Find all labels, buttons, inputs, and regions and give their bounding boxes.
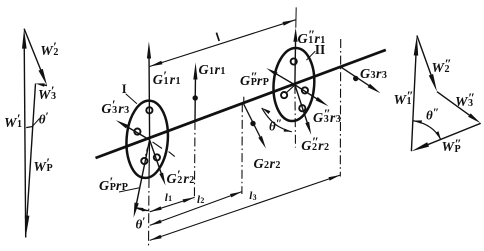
vector W''1 (right polygon) xyxy=(411,36,418,152)
label theta'' (plane II) xyxy=(269,118,282,133)
angle theta' tick (left polygon) xyxy=(26,126,33,127)
plane II centre line below (dash-dot) xyxy=(294,85,297,148)
label theta' (plane I) xyxy=(136,216,146,231)
dimension l xyxy=(150,20,296,67)
label theta' (left polygon) xyxy=(39,111,49,126)
vector G''2r2 (plane II, down) xyxy=(295,85,311,135)
dimension l1 xyxy=(150,197,195,211)
vector W'2 (left polygon) xyxy=(24,29,47,86)
vector W''P (right polygon) xyxy=(411,123,480,151)
dashed radius line plane I seg2 xyxy=(169,152,175,157)
hole I bottom-left xyxy=(141,158,147,164)
mass dot G3 xyxy=(353,76,358,81)
hole II left xyxy=(281,92,287,98)
label theta'' (right polygon) xyxy=(426,107,439,122)
dashed line to bottom-left hole plane I xyxy=(146,148,148,156)
extension line above plane II xyxy=(295,7,297,27)
theta'' arc (plane II) xyxy=(262,108,292,132)
vector G'3r3 (plane I, up-left) xyxy=(116,120,150,140)
leader from G'Pr_P label xyxy=(119,188,139,192)
label I (plane I) xyxy=(122,83,127,96)
plane I centre line through ellipse xyxy=(148,140,151,178)
label W''3 xyxy=(455,92,474,110)
label G2r2 xyxy=(254,154,281,172)
vector G3r3 (disc 3, down-right) xyxy=(341,67,381,93)
dimension l2 xyxy=(150,192,242,226)
vector G''1r1 (plane II, up) xyxy=(293,28,297,85)
leader to plane II label xyxy=(306,51,315,60)
label G1r1 xyxy=(199,60,226,78)
label G''2r2 xyxy=(301,136,329,154)
label l2 xyxy=(197,192,205,206)
hole II bottom xyxy=(299,105,305,111)
dimension l3 xyxy=(150,175,341,240)
hole I bottom-right xyxy=(154,154,160,160)
hole II right xyxy=(302,87,308,93)
disc 2 centre line stub above shaft xyxy=(243,97,245,104)
label G'3r3 xyxy=(101,99,129,117)
theta'' arc (right polygon) xyxy=(413,120,441,140)
mass dot G1 xyxy=(193,95,198,100)
balancing plane I ellipse xyxy=(124,99,170,179)
vector W''2 (right polygon) xyxy=(417,36,437,92)
vector G2r2 (disc 2, down-right) xyxy=(243,103,266,148)
label G''1r1 xyxy=(298,29,326,47)
vector W''3 (right polygon) xyxy=(437,92,481,124)
dashed radius line plane I seg1 xyxy=(153,142,163,149)
vector G'2r2 (plane I, down-right) xyxy=(150,140,166,186)
label G''Pr_P xyxy=(240,71,268,89)
label l (dimension tick) xyxy=(216,33,219,41)
balancing plane II ellipse xyxy=(271,47,317,123)
theta' leader (left polygon) xyxy=(32,119,40,127)
label W''2 xyxy=(432,58,451,76)
leader to plane I label xyxy=(126,94,137,104)
vector W'3 (left polygon) xyxy=(36,83,48,86)
hole I top xyxy=(146,107,152,113)
disc 1 centre line (dash-dot) xyxy=(193,121,196,200)
shaft xyxy=(96,50,386,158)
disc 2 centre line (dash-dot) xyxy=(241,103,243,194)
radius line to hole II left xyxy=(286,85,295,93)
vector G'1r1 (plane I, up) xyxy=(147,42,151,140)
label l1 xyxy=(165,190,173,204)
disc 3 centre line (dash-dot) xyxy=(339,39,341,177)
label G'1r1 xyxy=(153,70,181,88)
label W'P xyxy=(33,157,52,175)
label W''1 xyxy=(394,90,413,108)
vector G1r1 (disc 1, up) xyxy=(193,63,197,121)
label W'1 xyxy=(4,113,23,131)
label G''3r3 xyxy=(313,108,341,126)
vector G''3r3 (plane II, down-right) xyxy=(295,85,329,106)
label II (plane II) xyxy=(315,43,326,57)
label W''P xyxy=(442,137,461,155)
label G3r3 xyxy=(360,64,387,82)
vector W'P (left polygon) xyxy=(25,84,36,238)
mass dot G2 xyxy=(250,121,255,126)
theta' arc (plane I) xyxy=(135,207,149,211)
vector G'Pr_P (plane I, down-left) xyxy=(134,140,150,218)
vector W'1 (left polygon) xyxy=(22,29,27,238)
label W'3 xyxy=(38,85,57,103)
label W'2 xyxy=(40,41,59,59)
vector G''Pr_P (plane II, up-left) xyxy=(266,68,295,85)
plane I centre line (dash-dot) xyxy=(148,178,151,248)
label G'2r2 xyxy=(167,169,195,187)
label l3 xyxy=(249,188,257,202)
hole II top xyxy=(291,58,297,64)
label G'Pr_P xyxy=(99,176,127,194)
hole I left xyxy=(134,129,140,135)
